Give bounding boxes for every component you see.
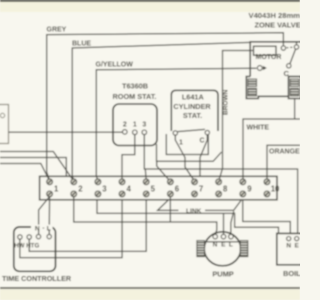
bottom border line: [0, 287, 300, 289]
svg-text:BOILER: BOILER: [283, 269, 300, 278]
motor M1: [254, 46, 277, 55]
terminal screws row 1-10: [47, 179, 280, 197]
labels N E: [286, 242, 299, 249]
svg-text:8: 8: [223, 185, 228, 194]
wire mains feed 3 to terminal 1: [0, 164, 49, 180]
svg-text:T6360B: T6360B: [122, 82, 148, 91]
cylinder stat terminal C: [205, 130, 209, 134]
svg-text:3: 3: [142, 122, 146, 129]
bottom cream band: [0, 289, 300, 300]
motor terminal with arrow: [257, 66, 266, 71]
wire terminal 3 to pump E and boiler N: [97, 200, 279, 233]
svg-text:ZONE VALVE: ZONE VALVE: [255, 21, 301, 30]
pump terminal E: [221, 234, 226, 239]
wire room stat 1 to terminal 4: [122, 135, 135, 180]
cylinder stat inner tray: [166, 134, 208, 155]
room stat terminal 2: [123, 130, 128, 135]
room stat terminal labels 2 1 3: [123, 122, 147, 129]
svg-text:N: N: [35, 226, 40, 233]
room stat terminal 3: [142, 130, 147, 135]
svg-text:E: E: [221, 241, 226, 248]
svg-text:E: E: [295, 242, 300, 249]
svg-text:G/YELLOW: G/YELLOW: [96, 61, 134, 68]
wire to contact B: [296, 42, 298, 45]
aux switch dashed line: [286, 46, 293, 49]
zone valve V4043H body: [246, 42, 305, 99]
time controller terminal L: [47, 234, 51, 238]
svg-text:2: 2: [123, 122, 127, 129]
svg-text:2: 2: [78, 185, 83, 194]
svg-text:ORANGE: ORANGE: [269, 149, 300, 156]
svg-text:V4043H 28mm: V4043H 28mm: [249, 11, 301, 20]
wire from left box to room stat terminal 2: [9, 131, 123, 133]
wire mains feed 1 to terminal 2: [0, 152, 73, 181]
wire terminal 2 to pump N: [74, 197, 217, 234]
svg-text:-: -: [42, 225, 44, 232]
svg-text:4: 4: [127, 185, 132, 194]
labels N - L: [35, 225, 51, 233]
svg-text:L641A: L641A: [182, 92, 205, 101]
svg-text:ROOM STAT.: ROOM STAT.: [113, 92, 157, 101]
wire cyl stat C down: [200, 135, 207, 176]
cylinder stat terminal 1: [173, 131, 177, 135]
svg-text:MOTOR: MOTOR: [256, 54, 282, 61]
time controller terminal HTG: [27, 235, 31, 239]
svg-text:9: 9: [247, 185, 252, 194]
svg-text:3: 3: [102, 185, 107, 194]
svg-text:5: 5: [151, 185, 156, 194]
svg-text:HW HTG: HW HTG: [14, 242, 39, 249]
aux switch common contact C: [287, 64, 291, 68]
wire stub to terminal 5: [144, 169, 147, 180]
pump body: [204, 232, 241, 266]
left cut-off junction box: [0, 105, 9, 144]
svg-text:1: 1: [54, 185, 59, 194]
time controller box: [14, 225, 56, 272]
cylinder stat outer body: [157, 144, 222, 161]
zone valve left cable clamp (hatched): [248, 79, 257, 96]
wire BLUE: [72, 42, 251, 180]
svg-text:L: L: [229, 241, 233, 248]
svg-text:N: N: [286, 242, 291, 249]
svg-text:C: C: [199, 138, 204, 145]
svg-text:L: L: [47, 226, 51, 233]
wire mains feed 2: [0, 158, 66, 177]
wire G/YELLOW earth: [96, 68, 256, 180]
svg-text:1: 1: [179, 140, 183, 147]
svg-text:6: 6: [175, 185, 180, 194]
pump right lug (hatched): [240, 241, 248, 257]
wire white from valve: [294, 99, 296, 120]
svg-text:7: 7: [199, 185, 203, 194]
wire LINK right: [205, 200, 242, 211]
pump left lug (hatched): [197, 241, 205, 257]
svg-text:C: C: [284, 69, 290, 78]
pump terminal L: [229, 234, 234, 239]
svg-text:WHITE: WHITE: [247, 124, 270, 131]
zone valve right cable clamp (hatched): [290, 79, 299, 96]
wire pump L to link: [231, 211, 234, 234]
wire cyl stat body to terminal 6: [157, 161, 169, 180]
aux switch contact B: [294, 45, 298, 49]
top cream band: [0, 0, 300, 12]
wire ORANGE: [267, 145, 300, 180]
wire terminal 9 to boiler: [243, 200, 290, 234]
time controller terminal HW: [18, 235, 22, 239]
wire cyl stat 1 to terminal 7: [175, 135, 194, 180]
cylinder stat switch blade: [178, 129, 205, 131]
wire WHITE: [243, 119, 300, 180]
wire terminal 1 to time controller N: [39, 197, 50, 235]
cylinder stat L641A head: [171, 90, 218, 131]
wire pump E drop: [223, 213, 225, 234]
room stat terminal 1: [133, 130, 138, 135]
boiler terminal L (clipped): [303, 237, 307, 241]
time controller terminal N: [36, 234, 40, 238]
wire terminal 6 drop: [169, 197, 171, 222]
room stat T6360B: [113, 82, 157, 146]
wire terminal 5 to time controller HTG: [29, 200, 146, 252]
top border line: [0, 0, 300, 2]
wire terminal 4 to time controller HW: [20, 200, 122, 258]
svg-text:10: 10: [271, 185, 280, 194]
wire BROWN: [219, 51, 254, 181]
wire LINK left: [158, 200, 179, 211]
svg-text:BROWN: BROWN: [223, 89, 230, 115]
svg-text:TIME CONTROLLER: TIME CONTROLLER: [2, 274, 72, 283]
aux switch contact A: [281, 46, 285, 50]
boiler box: [277, 233, 306, 264]
svg-text:STAT.: STAT.: [183, 111, 202, 120]
wire GREY: [47, 33, 284, 180]
aux switch blade: [290, 50, 295, 64]
wire terminal 1 to time controller L: [48, 197, 50, 235]
boiler terminal N: [287, 237, 291, 241]
svg-text:GREY: GREY: [47, 26, 67, 33]
labels N E L: [213, 241, 233, 248]
terminal strip junction box: [40, 176, 277, 200]
wire room stat 3 to boiler (long run): [144, 135, 297, 234]
boiler terminal E: [295, 237, 299, 241]
pump terminal N: [213, 234, 218, 239]
svg-text:1: 1: [133, 122, 137, 129]
svg-text:PUMP: PUMP: [212, 269, 233, 278]
svg-text:N: N: [213, 241, 218, 248]
svg-text:CYLINDER: CYLINDER: [173, 102, 211, 111]
svg-text:BLUE: BLUE: [72, 40, 91, 47]
